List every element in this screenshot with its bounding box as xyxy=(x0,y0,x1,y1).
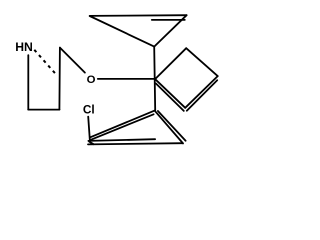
wire diamond edge Cq-T xyxy=(155,48,186,79)
wire azetidine C3-C2-CH apex right bond xyxy=(58,48,61,110)
wire diamond double bond Bo-R main xyxy=(185,76,218,108)
wire triangle edge A-C xyxy=(90,16,155,47)
wire triangle edge B-C xyxy=(154,15,186,46)
wire diamond edge T-R xyxy=(186,48,218,76)
wire diamond double bond Bo-R second xyxy=(187,80,217,111)
wire bond CH-O xyxy=(60,48,85,73)
wire double bond inner line X-B xyxy=(152,19,185,21)
wire bottom ring double bond V1-V2 main xyxy=(90,111,154,138)
wire hashed stereo bond N-C2 xyxy=(34,50,57,76)
wire diamond double bond Cq-Bo main xyxy=(155,79,185,108)
wire diamond double bond Cq-Bo second xyxy=(156,83,184,111)
wire bond O-Cq xyxy=(98,78,155,80)
wire bottom ring double bond V2-V3 main xyxy=(155,111,183,144)
wire bond V1-Cl xyxy=(88,117,90,141)
wire bottom ring double bond V2-V3 second xyxy=(158,111,186,141)
svg-text:HN: HN xyxy=(15,40,33,54)
wire triangle top edge A-B xyxy=(90,14,187,17)
wire bottom ring double bond V1-V2 second xyxy=(91,114,154,140)
wire bottom edge lower line V1-V3 xyxy=(88,143,183,144)
wire vertical spine C-Cq-V2 xyxy=(154,47,155,111)
wire azetidine C4-C3 bottom bond xyxy=(28,109,59,111)
wire bottom edge upper line V1-V5 xyxy=(88,139,155,141)
node V1 junction xyxy=(89,142,93,145)
wire azetidine N-C4 left bond xyxy=(27,55,29,109)
svg-text:O: O xyxy=(87,74,96,86)
svg-text:Cl: Cl xyxy=(83,103,95,117)
